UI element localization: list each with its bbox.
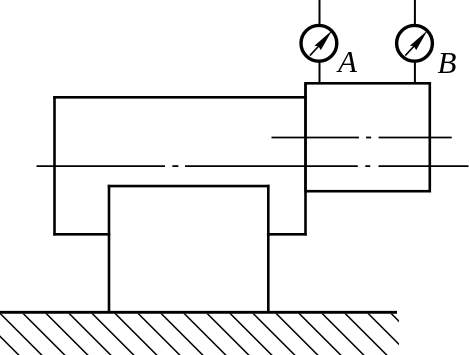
support block left wall xyxy=(108,185,111,314)
large body rectangle top edge xyxy=(53,96,307,99)
small journal rectangle (right) xyxy=(306,83,430,191)
dial indicator B stem lower xyxy=(414,62,416,85)
large body rectangle bottom edge right segment xyxy=(267,233,307,236)
large body rectangle left edge xyxy=(53,96,56,236)
dial indicator A needle xyxy=(310,30,332,55)
large body rectangle right edge xyxy=(304,83,307,235)
large body rectangle bottom edge left segment xyxy=(53,233,110,236)
main axis center line xyxy=(37,165,469,167)
svg-text:B: B xyxy=(438,45,457,80)
support block right wall xyxy=(267,185,270,314)
surface plate top line xyxy=(0,311,397,314)
dial indicator B body xyxy=(397,25,433,61)
dial indicator A stem upper xyxy=(319,0,321,25)
dial indicator B stem upper xyxy=(414,0,416,25)
dial indicator B needle xyxy=(405,30,427,55)
support block top edge xyxy=(108,185,270,188)
svg-text:A: A xyxy=(336,44,358,79)
surface plate hatching xyxy=(0,310,440,355)
dial indicator A body xyxy=(301,25,337,61)
dial indicator A stem lower xyxy=(319,62,321,85)
upper axis center line xyxy=(272,137,452,139)
